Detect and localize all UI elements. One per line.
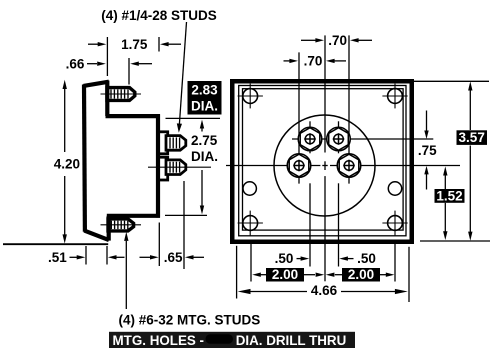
dimension 2.00 right (boxed): [326, 267, 395, 282]
svg-text:DIA.: DIA.: [191, 149, 218, 164]
svg-text:2.75: 2.75: [191, 133, 218, 148]
vertical line left stud column x=299: [298, 52, 300, 183]
bottom 1/4-28 stud boss: [158, 157, 168, 180]
top 1/4-28 stud boss: [158, 132, 168, 154]
svg-text:4.20: 4.20: [54, 156, 80, 171]
top #6-32 stud centerline: [101, 93, 142, 95]
side circle left: [243, 182, 256, 195]
svg-text:DIA.: DIA.: [191, 99, 218, 114]
svg-text:(4) #1/4-28 STUDS: (4) #1/4-28 STUDS: [101, 8, 217, 23]
extension tick .66 right: [128, 58, 130, 85]
svg-text:.50: .50: [275, 251, 294, 266]
inner frame outer thin rect: [239, 86, 406, 236]
2.75 up arrow: [200, 120, 204, 132]
top extension line (3.57): [414, 80, 489, 82]
svg-text:.70: .70: [304, 53, 323, 68]
side circle right: [388, 182, 401, 195]
2.75 down arrow: [200, 170, 204, 214]
bottom 1/4-28 stud: [148, 160, 211, 175]
svg-text:2.00: 2.00: [272, 267, 298, 282]
bottom #6-32 stud: [101, 219, 142, 231]
inner frame inner thin rect: [243, 89, 404, 230]
stud top-right (front): [327, 127, 351, 151]
extension line for 1.75/.66 dims: [106, 37, 108, 76]
svg-text:4.66: 4.66: [311, 283, 338, 298]
dimension 4.20: [54, 80, 80, 244]
vertical line right stud column x=349: [348, 35, 350, 183]
top 1/4-28 stud: [166, 136, 186, 151]
black bar: [109, 332, 355, 348]
dimension .51: [48, 246, 124, 265]
2.83 DIA. box: [188, 81, 222, 115]
dimension 2.00 left (boxed): [252, 267, 324, 282]
corner hole bottom-right: [382, 211, 407, 236]
big circle 2.83 dia: [274, 115, 375, 216]
dimension 1.75: [88, 37, 181, 52]
vertical center line x=325: [324, 35, 326, 281]
vertical line top stud column x=310: [309, 121, 311, 266]
dimension .65: [140, 181, 205, 269]
extension tick 1.75 right: [158, 37, 160, 52]
panel surface line: [3, 243, 108, 245]
dimension 1.52 (boxed): [435, 166, 465, 240]
svg-text:.66: .66: [66, 56, 85, 71]
svg-text:1.52: 1.52: [436, 188, 462, 203]
svg-text:(4) #6-32 MTG. STUDS: (4) #6-32 MTG. STUDS: [119, 312, 261, 327]
svg-text:2.83: 2.83: [191, 83, 218, 98]
svg-text:.70: .70: [328, 33, 347, 48]
4.66 extension lines: [236, 246, 238, 299]
dia extension line top: [166, 117, 221, 119]
svg-text:.50: .50: [357, 251, 376, 266]
leader line #6-32 studs: [124, 232, 128, 309]
svg-text:.75: .75: [418, 143, 437, 158]
dimension .70 upper: [301, 33, 372, 48]
dimension .50 left: [275, 251, 310, 266]
blacked-out value blob: [206, 334, 234, 344]
dimension .50 right: [339, 251, 376, 266]
svg-text:3.57: 3.57: [459, 130, 485, 145]
corner hole columns below square: [250, 244, 252, 282]
stud right (front): [337, 154, 361, 178]
dia extension line bottom: [165, 214, 207, 216]
corner hole top-left: [238, 84, 263, 109]
stud top-left (front): [298, 127, 322, 151]
horizontal centerline: [226, 165, 460, 167]
dimension .66: [66, 56, 152, 71]
vertical line top stud column x=338.5: [338, 121, 340, 266]
corner hole top-right: [382, 84, 407, 109]
svg-text:1.75: 1.75: [121, 37, 148, 52]
svg-text:DIA. DRILL THRU: DIA. DRILL THRU: [236, 333, 347, 348]
bottom extension line (3.57/1.52): [420, 240, 490, 242]
body outline: [84, 81, 161, 241]
top stud row line y=139: [292, 138, 433, 140]
leader line #1/4-28 studs: [177, 22, 187, 133]
dimension 4.66: [238, 283, 408, 298]
svg-text:2.00: 2.00: [348, 267, 374, 282]
svg-text:.65: .65: [164, 250, 183, 265]
dimension .70 lower: [284, 53, 347, 68]
dimension 3.57 (boxed): [457, 81, 488, 240]
svg-text:.51: .51: [48, 250, 67, 265]
svg-text:MTG. HOLES -: MTG. HOLES -: [113, 333, 205, 348]
top #6-32 stud: [101, 88, 142, 101]
outer square flange: [232, 81, 412, 242]
stud left (front): [287, 154, 311, 178]
dimension .75: [418, 111, 437, 190]
corner hole bottom-left: [238, 211, 263, 236]
